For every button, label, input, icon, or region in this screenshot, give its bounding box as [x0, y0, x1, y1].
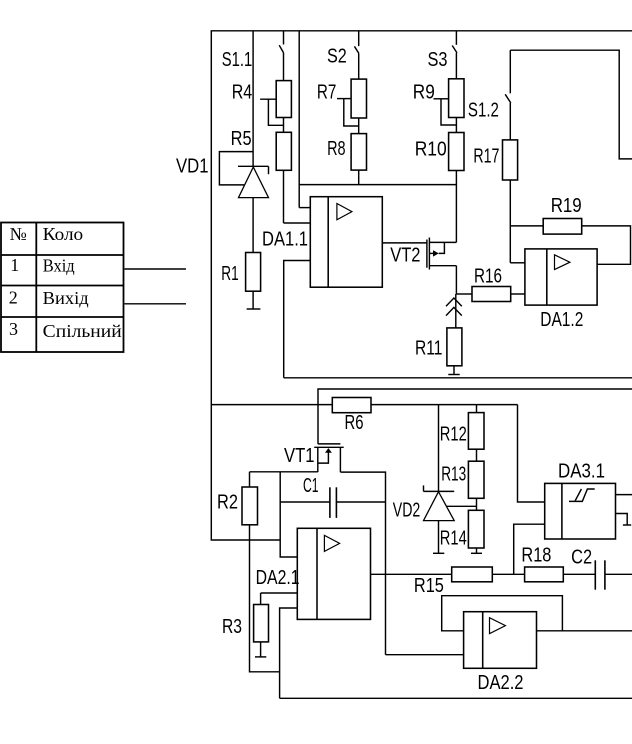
svg-text:R6: R6: [345, 412, 364, 434]
wire DA1.2 input 1: [510, 262, 525, 264]
svg-text:Коло: Коло: [43, 224, 83, 244]
svg-text:R2: R2: [217, 492, 238, 514]
transistor VT1: [314, 444, 344, 472]
top border wire: [211, 30, 632, 32]
svg-text:DA3.1: DA3.1: [558, 461, 605, 483]
zener diode VD1: [219, 152, 268, 198]
node input line: [252, 31, 254, 167]
terminal tick under R3: [260, 642, 262, 657]
wire R16 to DA1.2 input 2: [511, 293, 525, 295]
op-amp DA1.2: [525, 249, 597, 305]
op-amp DA1.1: [310, 197, 382, 288]
svg-text:VD2: VD2: [393, 500, 421, 522]
svg-text:3: 3: [9, 319, 18, 339]
resistor R7: [351, 79, 366, 118]
wire R17 down to DA1.2 input: [509, 140, 511, 263]
svg-text:R7: R7: [317, 82, 337, 104]
bus line to DA1.1 input 1: [298, 31, 300, 208]
bottom rail wire: [280, 697, 632, 699]
wire DA2.1 output to R15: [371, 573, 452, 575]
svg-text:R14: R14: [440, 528, 467, 550]
horizontal wire under R8/R10: [299, 184, 456, 186]
resistor R10: [449, 133, 464, 171]
svg-text:DA2.1: DA2.1: [256, 567, 300, 589]
capacitor C1: [280, 487, 385, 518]
resistor R14: [468, 510, 484, 548]
svg-text:R5: R5: [231, 128, 252, 150]
svg-text:Вихід: Вихід: [43, 288, 89, 308]
wire R18 to C2: [563, 573, 595, 575]
tap of R7: [337, 98, 351, 100]
wire S2 to R7: [358, 53, 360, 79]
wire DA3.1 output 2 with tick: [616, 514, 628, 526]
svg-text:DA2.2: DA2.2: [478, 672, 524, 694]
resistor R12: [468, 413, 484, 450]
svg-text:S1.1: S1.1: [222, 49, 252, 71]
wire S1.2 top feed: [510, 50, 632, 159]
svg-text:VT1: VT1: [284, 445, 315, 467]
svg-text:S1.2: S1.2: [468, 100, 499, 122]
wire R2 bottom to DA2.1 node: [250, 525, 280, 672]
svg-text:2: 2: [9, 288, 18, 308]
wire DA1.1 input 1: [299, 207, 310, 209]
wire R3 top stub: [260, 593, 262, 605]
svg-text:R10: R10: [415, 139, 447, 161]
svg-text:R16: R16: [474, 266, 502, 288]
resistor R13: [468, 461, 484, 498]
resistor R17: [503, 140, 518, 180]
resistor R6: [332, 398, 371, 413]
transistor VT2: [427, 238, 457, 270]
svg-text:R8: R8: [327, 138, 346, 160]
wire DA2.2 output: [537, 630, 632, 632]
wire DA1.1 input 2: [284, 222, 311, 224]
svg-text:VT2: VT2: [390, 245, 420, 267]
wire R2 top stub: [249, 472, 251, 487]
switch S2: [354, 31, 358, 54]
resistor R2: [242, 487, 258, 525]
svg-text:C1: C1: [303, 475, 319, 497]
svg-text:R4: R4: [232, 82, 253, 104]
resistor R4: [276, 81, 291, 118]
svg-text:Спільний: Спільний: [43, 321, 122, 341]
wire S1.1 to R4: [283, 53, 285, 81]
resistor R16: [472, 287, 511, 302]
wire R12-R13: [476, 449, 478, 461]
resistor R8: [351, 134, 366, 171]
connector table: [1, 223, 124, 353]
op-amp DA2.1: [297, 528, 370, 619]
svg-text:R19: R19: [551, 195, 582, 217]
switch S3: [452, 31, 457, 53]
wire node down to C1 and DA2.1 input 1: [280, 472, 297, 557]
wire DA2.1 input 3 / bottom rail riser: [280, 608, 298, 698]
svg-text:R15: R15: [414, 575, 444, 597]
wire with chevrons to R11: [446, 294, 462, 328]
svg-text:R17: R17: [473, 146, 499, 168]
wire VT2 source down: [455, 266, 457, 294]
resistor R15: [452, 567, 493, 582]
wire R13-R14: [476, 498, 478, 510]
wire to DA2.2 input 2: [386, 654, 464, 656]
svg-text:S3: S3: [428, 49, 448, 71]
tap of R9: [434, 98, 449, 100]
op-amp DA3.1: [545, 483, 616, 539]
wire R4-R5 chain down to DA1.1: [283, 81, 285, 223]
feedback wire DA2.2: [442, 596, 563, 631]
wire table pin2: [125, 303, 187, 305]
resistor R5: [276, 132, 291, 170]
svg-text:VD1: VD1: [176, 156, 209, 178]
resistor R11: [447, 328, 462, 366]
svg-text:R3: R3: [222, 616, 242, 638]
wire A lower rail: [284, 377, 632, 379]
wire VD2 side tap to R13-R14 node: [446, 505, 476, 507]
resistor R9: [449, 79, 464, 118]
resistor R3: [254, 605, 269, 642]
svg-text:№: №: [10, 224, 27, 244]
wire R12 top stub: [476, 405, 478, 413]
terminal tick under R11: [453, 366, 455, 375]
tap of R4: [260, 98, 276, 100]
svg-text:DA1.2: DA1.2: [540, 309, 583, 331]
terminal tick under R1: [252, 291, 254, 309]
wire VD2 cathode from wire C: [438, 405, 440, 492]
wire C rail through R6: [211, 404, 517, 406]
wire VD1 to R1: [252, 198, 254, 253]
wire DA2.1 input 2 from R3: [261, 592, 298, 594]
resistor R1: [246, 253, 261, 292]
wire R7-R8 chain: [358, 79, 360, 185]
svg-text:R12: R12: [440, 424, 467, 446]
wire VT1 drain down the right branch: [340, 472, 385, 655]
wire C corner down to DA3.1 input 1: [518, 405, 545, 502]
svg-text:R1: R1: [221, 263, 238, 285]
resistor R18: [525, 567, 564, 582]
wire node to R16: [456, 293, 472, 295]
wire R9-R10 chain down to VT2 drain: [455, 79, 457, 243]
svg-text:C2: C2: [571, 547, 592, 569]
switch S1.1: [279, 31, 283, 53]
wire DA3.1 output 1: [616, 494, 632, 496]
svg-text:S2: S2: [327, 46, 347, 68]
feedback wire R19 to DA1.2 output: [582, 226, 631, 264]
wire R15 to R18: [492, 573, 524, 575]
wire table pin1: [125, 268, 187, 270]
terminal tick under VD2: [438, 521, 440, 554]
switch S1.2: [505, 50, 511, 103]
svg-text:DA1.1: DA1.1: [262, 229, 308, 251]
terminal tick under R14: [476, 548, 478, 553]
wire S3 to R9: [455, 53, 457, 79]
wire VT1 source to R2 top: [250, 471, 318, 473]
wire DA1.1 input 3 from lower rail: [284, 261, 311, 378]
op-amp DA2.2: [464, 612, 537, 669]
svg-text:Вхід: Вхід: [43, 256, 75, 276]
svg-text:R9: R9: [413, 82, 435, 104]
svg-text:1: 1: [10, 255, 19, 275]
resistor R19: [543, 219, 582, 235]
svg-text:R11: R11: [415, 338, 443, 360]
left border wire: [211, 31, 280, 540]
wire B rail to VT1 gate: [318, 389, 632, 444]
svg-text:R13: R13: [441, 464, 466, 486]
svg-text:R18: R18: [521, 545, 551, 567]
zener diode VD2: [424, 485, 455, 520]
wire S1.2 to R17: [509, 103, 511, 140]
wire DA1.1 output to VT2 gate: [382, 242, 427, 244]
wire riser to DA3.1 input 2: [514, 524, 545, 574]
wire R19 left from R17 line: [510, 225, 543, 227]
capacitor C2: [595, 560, 632, 589]
